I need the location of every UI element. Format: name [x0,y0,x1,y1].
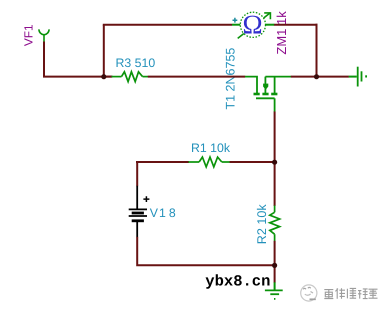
transistor T1 (N-MOSFET, rotated) [245,77,291,112]
svg-text:ybx8.cn: ybx8.cn [205,273,270,291]
svg-text:Ω: Ω [243,9,263,39]
wire meter right to corner [274,24,318,26]
watermark text [324,288,377,298]
wire VF1 to node A [43,76,112,78]
wire top rail to meter [103,24,232,26]
wire battery bottom to rail [137,237,275,265]
wire R3 to T1 [148,76,245,78]
watermark logo [301,285,317,301]
svg-text:R3 510: R3 510 [116,56,156,70]
wire R2 to node D [274,241,276,266]
wire corner down to node B [316,24,318,77]
wire node A up to top rail [103,25,105,78]
ground right [349,67,366,87]
svg-text:VF1: VF1 [22,24,36,46]
resistor R2 [270,206,280,242]
wire battery top lead [136,161,138,186]
wire node C down to R2 [274,162,276,206]
junction node C [272,160,277,165]
battery V1 [129,186,150,238]
wire node A to R3 [104,76,113,78]
svg-text:V18: V18 [150,206,176,220]
wire node B to ground stub [317,76,349,78]
junction node B [314,74,319,79]
svg-text:T1 2N6755: T1 2N6755 [224,48,238,110]
resistor R1 [188,157,230,167]
wire VF1 down [43,42,45,77]
resistor R3 [112,72,149,82]
wire T1 gate down to node C [274,112,276,163]
svg-text:ZM1 1k: ZM1 1k [274,11,289,55]
ground bottom [265,282,283,299]
pin VF1 (Y symbol) [39,29,49,42]
junction node D [272,263,277,268]
svg-text:R2 10k: R2 10k [255,204,269,245]
wire T1 to node B [291,76,317,78]
wire R1 to node C [230,161,275,163]
svg-text:R1 10k: R1 10k [191,141,231,155]
wire node D down to ground [274,266,276,283]
junction node A [101,74,106,79]
wire battery corner to R1 [136,161,189,163]
ohmmeter ZM1 [232,9,274,39]
